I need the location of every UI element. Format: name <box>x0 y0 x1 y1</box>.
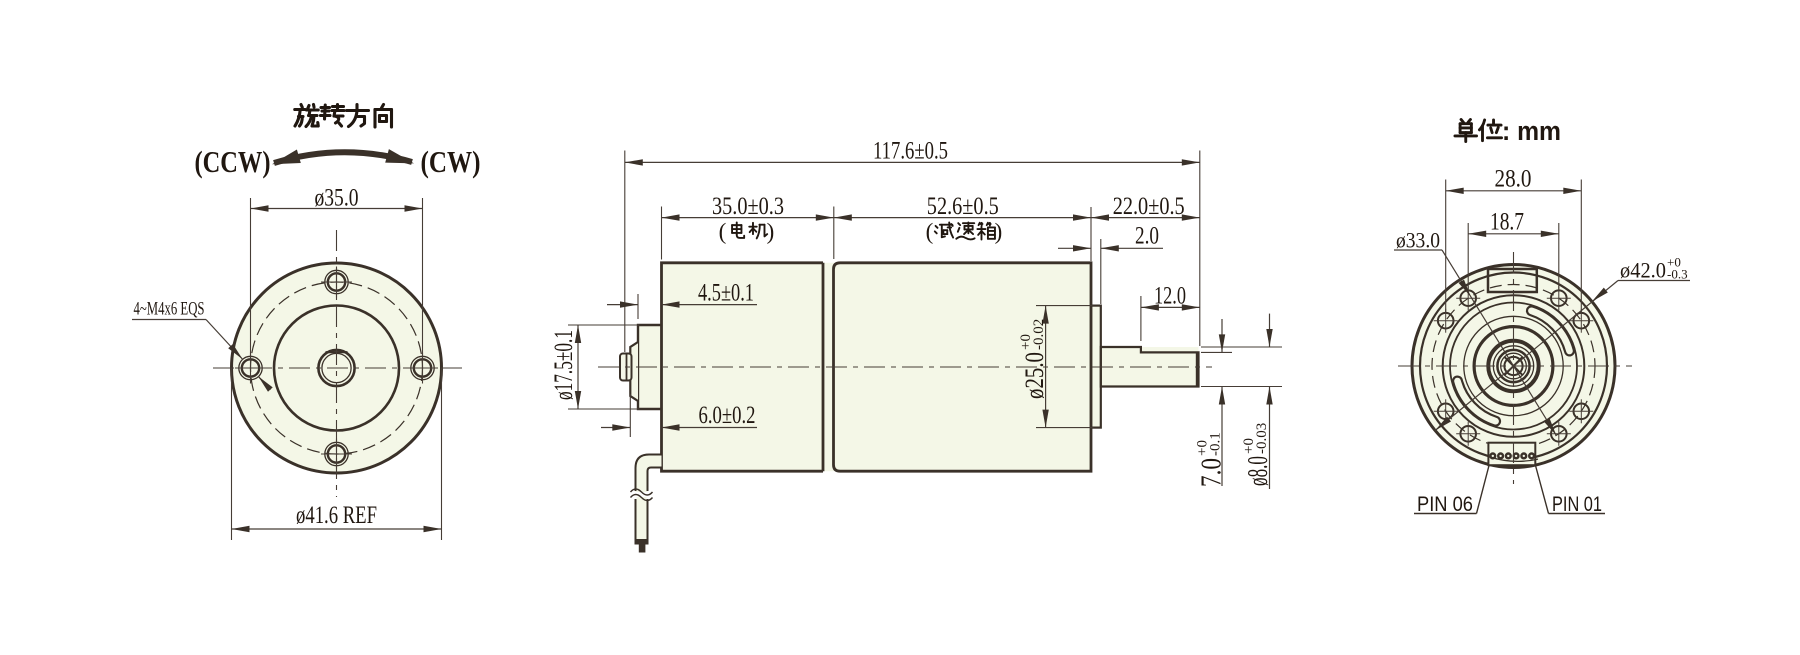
hanzi zhuan (turn) <box>321 105 345 127</box>
svg-text:-0.3: -0.3 <box>1667 267 1688 282</box>
rear circle 4 (slot outer) <box>1450 303 1577 430</box>
svg-text:ø33.0: ø33.0 <box>1396 228 1440 253</box>
output shaft with D-flat <box>1101 347 1199 387</box>
motor case outline <box>662 263 824 471</box>
rear bolt circle dashed <box>1432 285 1595 448</box>
mounting hole M4 #1 <box>239 356 262 379</box>
gearbox front boss Ø25 <box>1091 306 1101 428</box>
dimension 6.0±0.2 <box>629 394 631 437</box>
svg-text:ø17.5±0.1: ø17.5±0.1 <box>549 330 578 400</box>
hanzi xuan (rotate) <box>295 105 319 127</box>
dimension 22.0±0.5 <box>1090 207 1092 261</box>
rear circle 3 <box>1443 295 1585 437</box>
dimension 35.0±0.3 (motor) <box>661 207 663 260</box>
8 rear screw holes <box>1574 404 1590 420</box>
flange shaft D-flat chord <box>326 351 348 353</box>
rear centerline vertical <box>1513 252 1515 484</box>
svg-text:ø35.0: ø35.0 <box>315 185 359 212</box>
rear centerline horizontal <box>1398 365 1632 367</box>
dimension 52.6±0.5 (gearbox) <box>834 217 1091 219</box>
dimension 28.0 <box>1445 180 1447 314</box>
flange centerline vertical <box>336 230 338 497</box>
svg-text:PIN 06: PIN 06 <box>1417 493 1473 516</box>
dimension 12.0 <box>1140 296 1142 341</box>
svg-text:52.6±0.5: 52.6±0.5 <box>927 193 999 220</box>
hub circles <box>1464 316 1563 415</box>
hanzi dan-wei (unit) <box>1455 119 1477 141</box>
svg-text:4~M4x6 EQS: 4~M4x6 EQS <box>134 299 205 320</box>
flange centerline horizontal <box>213 367 462 369</box>
svg-text:7.0: 7.0 <box>1197 458 1228 487</box>
mounting hole M4 #2 <box>411 356 434 379</box>
dimension Ø17.5±0.1 <box>568 324 640 326</box>
flange outer circle <box>232 263 442 473</box>
shaft end circle with X <box>1504 357 1522 375</box>
svg-text:(CCW): (CCW) <box>195 144 271 179</box>
dimension 4.5±0.1 <box>637 294 639 319</box>
wire break squiggle <box>631 489 653 495</box>
dimension 117.6±0.5 <box>624 151 626 353</box>
rear shaft tip step3 <box>620 354 632 381</box>
rear outer circle <box>1412 265 1615 468</box>
hanzi xiang (toward) <box>375 105 392 128</box>
motor lead wire <box>636 455 662 493</box>
svg-text:(: ( <box>719 219 727 244</box>
mounting hole M4 #4 <box>325 442 348 465</box>
svg-text:-0.02: -0.02 <box>1031 319 1047 350</box>
top tab <box>1488 269 1537 292</box>
svg-text:35.0±0.3: 35.0±0.3 <box>712 193 784 220</box>
svg-text:ø41.6 REF: ø41.6 REF <box>296 502 377 529</box>
flange inner circle <box>274 306 399 431</box>
svg-text:117.6±0.5: 117.6±0.5 <box>873 138 948 165</box>
svg-text:): ) <box>767 219 775 244</box>
svg-text:6.0±0.2: 6.0±0.2 <box>699 402 756 429</box>
svg-text:: mm: : mm <box>1502 116 1561 146</box>
motor+gearbox body fill <box>662 263 1092 471</box>
rear boss step2 (chamfered) <box>630 342 638 401</box>
hanzi fang (direction) <box>347 105 369 127</box>
gearbox outline (rounded left corners) <box>834 263 1092 471</box>
dimension Ø25.0 +0/-0.02 <box>1036 305 1094 307</box>
dimension 18.7 <box>1467 223 1469 291</box>
svg-text:ø25.0: ø25.0 <box>1020 352 1049 399</box>
svg-text:(CW): (CW) <box>421 144 481 179</box>
svg-text:-0.1: -0.1 <box>1208 432 1224 456</box>
svg-text:-0.03: -0.03 <box>1254 423 1270 454</box>
connector pins 1-6 <box>1490 454 1495 459</box>
mounting hole M4 #3 <box>325 270 348 293</box>
middle view centerline <box>598 366 1212 368</box>
svg-text:28.0: 28.0 <box>1495 166 1532 193</box>
bottom connector <box>1488 443 1535 466</box>
dimension Ø8.0 +0/-0.03 <box>1201 346 1282 348</box>
rear bearing boss step1 <box>638 325 662 409</box>
arc slot upper right <box>1531 311 1569 351</box>
curved double arrow rotation <box>274 152 412 163</box>
svg-text:2.0: 2.0 <box>1135 223 1159 250</box>
svg-text:4.5±0.1: 4.5±0.1 <box>698 280 754 307</box>
svg-text:PIN 01: PIN 01 <box>1552 493 1602 516</box>
svg-text:18.7: 18.7 <box>1490 209 1524 236</box>
svg-text:): ) <box>995 219 1003 244</box>
dimension 2.0 <box>1100 239 1102 304</box>
dimension Ø35.0 <box>250 198 252 358</box>
svg-text:ø42.0: ø42.0 <box>1620 258 1666 283</box>
wire end plug <box>635 539 649 545</box>
svg-text:22.0±0.5: 22.0±0.5 <box>1113 193 1185 220</box>
arc slot lower left <box>1458 381 1496 421</box>
svg-text:ø8.0: ø8.0 <box>1243 456 1274 486</box>
flange shaft hole inner <box>322 353 351 382</box>
flange bolt circle (dashed) <box>251 282 423 454</box>
rear circle 2 <box>1420 273 1607 460</box>
motor case right face <box>822 263 825 471</box>
flange shaft hole outer <box>318 350 354 386</box>
dimension Ø41.6 REF <box>231 368 233 540</box>
svg-text:(: ( <box>926 219 934 244</box>
dimension 7.0 +0/-0.1 <box>1201 351 1232 353</box>
svg-text:12.0: 12.0 <box>1154 283 1186 310</box>
